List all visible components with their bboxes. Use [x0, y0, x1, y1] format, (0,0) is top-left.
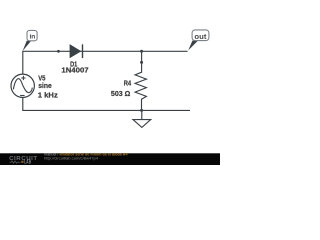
svg-text:R4: R4 — [124, 79, 132, 88]
wire V5 top lead — [22, 51, 24, 74]
wire top net from in to out — [22, 50, 187, 52]
value label sine — [38, 81, 52, 90]
node resistor top terminal — [140, 61, 143, 64]
value label 1N4007 — [61, 68, 88, 75]
node resistor bottom terminal junction — [140, 109, 143, 112]
value label 1 kHz — [38, 92, 59, 99]
value label 503 Ohm — [111, 89, 131, 98]
minus sign — [20, 95, 25, 97]
label V5 — [38, 75, 45, 82]
resistor R4 body — [135, 62, 146, 110]
wire bottom net from V5 to rail end — [23, 97, 190, 110]
plus sign — [21, 77, 25, 79]
svg-text:sine: sine — [38, 81, 52, 90]
node diode anode junction — [57, 50, 60, 53]
svg-text:1N4007: 1N4007 — [61, 68, 88, 75]
svg-text:1 kHz: 1 kHz — [38, 92, 59, 99]
svg-text:out: out — [194, 34, 207, 41]
net flag in — [22, 30, 37, 52]
wire resistor top branch — [141, 51, 143, 62]
ground symbol — [133, 110, 151, 127]
label D1 — [70, 61, 77, 68]
svg-text:in: in — [30, 33, 36, 40]
net flag out — [187, 30, 209, 52]
svg-text:http://circuitlab.com/c/8w47p4: http://circuitlab.com/c/8w47p4 — [44, 156, 98, 160]
svg-text:LAB: LAB — [24, 160, 31, 165]
sine wave glyph — [13, 79, 32, 93]
watermark footer bar — [0, 153, 220, 166]
svg-text:503 Ω: 503 Ω — [111, 89, 131, 98]
voltage source V5 sine — [11, 74, 34, 97]
diode D1 symbol — [70, 44, 83, 58]
node resistor branch junction on top wire — [140, 50, 143, 53]
label R4 — [124, 79, 132, 88]
